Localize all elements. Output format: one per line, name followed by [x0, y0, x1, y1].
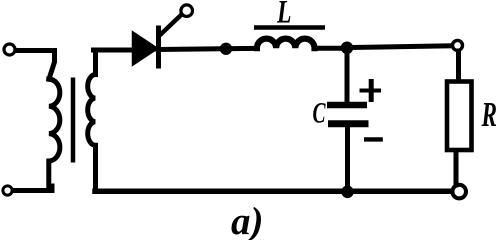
thyristor VS1 anode triangle — [134, 34, 157, 64]
transformer T1 primary winding (left) — [49, 79, 60, 189]
terminal X4 bottom-right — [452, 185, 466, 199]
bottom rail wire — [95, 189, 451, 195]
transformer core — [71, 78, 76, 163]
transformer T1 secondary winding (right) — [88, 50, 96, 188]
terminal X1 top-left — [4, 44, 15, 55]
thyristor VS1 gate lead — [159, 15, 182, 37]
wire junction B down to capacitor — [345, 52, 350, 101]
junction node B dot — [341, 42, 354, 55]
wire resistor to bottom-right terminal — [454, 153, 459, 186]
svg-text:R: R — [481, 95, 497, 134]
terminal X5 gate — [181, 5, 193, 17]
inductor L1 winding — [257, 39, 315, 49]
wire capacitor to bottom rail — [345, 128, 350, 190]
wire inductor to junction B — [315, 46, 346, 51]
wire cathode to inductor — [158, 48, 256, 49]
junction node D dot — [341, 186, 354, 199]
terminal X3 top-right — [453, 40, 463, 50]
capacitor C1 top plate — [327, 102, 367, 109]
terminal X2 bottom-left — [3, 186, 12, 195]
svg-text:а): а) — [231, 200, 264, 240]
thyristor VS1 cathode bar — [156, 26, 161, 69]
svg-text:C: C — [313, 97, 327, 130]
wire secondary top to thyristor anode — [94, 48, 135, 53]
svg-text:L: L — [276, 0, 291, 31]
capacitor C1 bottom plate — [328, 120, 369, 127]
capacitor minus sign — [364, 137, 383, 141]
resistor R1 body — [447, 82, 472, 151]
capacitor plus sign — [360, 79, 382, 102]
wire top-right terminal to resistor — [456, 51, 461, 80]
wire bottom-left terminal to primary bottom — [15, 186, 53, 191]
junction node A dot — [220, 43, 232, 55]
wire top-left terminal to transformer primary top — [17, 51, 55, 80]
wire junction B to top-right terminal — [352, 46, 451, 48]
inductor L1 core bar — [254, 25, 325, 30]
